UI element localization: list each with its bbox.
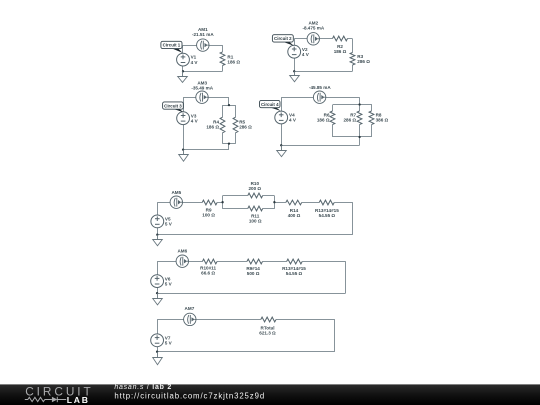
wire R5 top lead — [235, 105, 237, 117]
junction — [156, 292, 158, 294]
annotation tag Circuit 3 — [163, 102, 184, 112]
wire R11 right lead — [263, 208, 275, 210]
voltage source V1 — [177, 53, 190, 66]
svg-text:186 Ω: 186 Ω — [206, 125, 219, 130]
resistor R10 — [248, 193, 263, 198]
svg-text:Circuit 3: Circuit 3 — [164, 103, 182, 108]
svg-text:100 Ω: 100 Ω — [249, 219, 262, 224]
wire — [157, 319, 159, 334]
junction parallel top — [228, 104, 230, 106]
wire R8 top lead — [371, 105, 373, 112]
wire R10 left lead — [223, 195, 248, 197]
wire — [228, 97, 230, 105]
wire — [294, 71, 352, 73]
junction parallel bottom — [228, 142, 230, 144]
resistor R13#14#15 — [319, 200, 334, 205]
wire — [276, 319, 335, 321]
wire — [302, 202, 320, 204]
svg-text:-45.85 mA: -45.85 mA — [309, 85, 331, 90]
svg-text:386 Ω: 386 Ω — [376, 117, 389, 122]
svg-text:LAB: LAB — [67, 395, 90, 405]
wire — [274, 202, 285, 204]
ammeter AM6 — [176, 255, 188, 267]
wire — [359, 97, 361, 104]
svg-text:-21.51 mA: -21.51 mA — [192, 32, 214, 37]
wire — [320, 38, 333, 40]
wire R5 bottom lead — [235, 133, 237, 144]
svg-text:286 Ω: 286 Ω — [343, 117, 356, 122]
wire — [183, 202, 203, 204]
resistor R14 — [286, 200, 302, 205]
wire — [157, 293, 346, 295]
svg-text:5 V: 5 V — [165, 222, 173, 227]
wire — [208, 97, 229, 99]
ammeter AM4 — [313, 91, 325, 103]
ground — [153, 293, 163, 305]
resistor R9#14 — [247, 259, 263, 264]
svg-text:4 V: 4 V — [191, 119, 199, 124]
wire — [281, 124, 283, 145]
svg-text:54.55 Ω: 54.55 Ω — [319, 213, 336, 218]
resistor R5 — [233, 117, 238, 133]
ground — [179, 150, 189, 162]
svg-text:AM6: AM6 — [177, 249, 187, 254]
wire parallel bottom bar — [333, 136, 372, 138]
wire R3 bottom lead — [352, 65, 354, 71]
junction parallel right — [273, 201, 275, 203]
annotation tag Circuit 2 — [272, 35, 293, 46]
wire — [334, 202, 353, 204]
svg-text:54.55 Ω: 54.55 Ω — [286, 271, 303, 276]
wire — [359, 137, 361, 145]
svg-text:5 V: 5 V — [165, 341, 173, 346]
wire R7 bottom lead — [359, 125, 361, 137]
wire — [345, 261, 347, 293]
resistor R2 — [333, 36, 348, 41]
ground — [178, 71, 188, 82]
wire — [183, 97, 196, 99]
wire — [352, 202, 354, 235]
svg-text:-8.475 mA: -8.475 mA — [302, 25, 324, 30]
annotation tag Circuit 4 — [260, 100, 281, 111]
wire — [302, 261, 345, 263]
svg-text:Circuit 1: Circuit 1 — [163, 43, 181, 48]
annotation tag Circuit 1 — [161, 41, 183, 53]
wire — [281, 97, 283, 111]
svg-text:186 Ω: 186 Ω — [317, 117, 330, 122]
ground — [277, 145, 287, 156]
wire — [196, 319, 261, 321]
voltage source V6 — [151, 275, 164, 288]
svg-text:500 Ω: 500 Ω — [247, 271, 260, 276]
resistor R10#11 — [202, 259, 217, 264]
wire R1 top lead — [222, 45, 224, 52]
wire — [157, 351, 335, 353]
wire — [157, 347, 159, 352]
wire — [183, 97, 185, 112]
wire — [348, 38, 353, 40]
resistor R4 — [220, 117, 225, 133]
wire — [326, 97, 360, 99]
wire — [182, 45, 184, 53]
resistor R9 — [202, 200, 217, 205]
svg-text:400 Ω: 400 Ω — [288, 213, 301, 218]
svg-text:200 Ω: 200 Ω — [248, 186, 261, 191]
ammeter AM3 — [196, 91, 208, 103]
wire R1 bottom lead — [222, 66, 224, 72]
wire parallel bottom bar — [222, 143, 235, 145]
wire R10 right lead — [263, 195, 275, 197]
svg-text:286 Ω: 286 Ω — [357, 59, 370, 64]
svg-text:hasan.s / lab 2: hasan.s / lab 2 — [114, 384, 172, 391]
wire R3 top lead — [352, 39, 354, 53]
junction — [182, 70, 184, 72]
wire — [183, 45, 197, 47]
ammeter AM5 — [170, 196, 182, 208]
ammeter AM7 — [184, 313, 196, 325]
resistor R7 — [357, 111, 362, 125]
wire — [281, 145, 359, 147]
svg-text:621.3 Ω: 621.3 Ω — [259, 331, 276, 336]
resistor R13#14#15 — [287, 259, 303, 264]
footer bar — [0, 384, 540, 405]
wire — [228, 144, 230, 150]
resistor R1 — [220, 52, 225, 66]
CircuitLab logo resistor-diode line — [25, 397, 66, 402]
resistor R6 — [330, 111, 335, 125]
svg-text:AM7: AM7 — [185, 306, 195, 311]
voltage source V3 — [177, 112, 190, 125]
junction — [293, 70, 295, 72]
ammeter AM2 — [307, 33, 319, 45]
junction parallel top — [358, 103, 360, 105]
svg-text:5 V: 5 V — [165, 281, 173, 286]
wire — [294, 38, 307, 40]
wire — [281, 97, 313, 99]
wire R7 top lead — [359, 105, 361, 112]
junction — [280, 144, 282, 146]
wire — [157, 261, 159, 275]
wire R4 top lead — [222, 105, 224, 117]
voltage source V7 — [151, 334, 164, 347]
wire — [209, 45, 223, 47]
wire R8 bottom lead — [371, 125, 373, 137]
wire R11 left lead — [223, 208, 248, 210]
wire — [334, 319, 336, 351]
wire — [157, 261, 176, 263]
svg-text:100 Ω: 100 Ω — [202, 212, 215, 217]
svg-text:66.6 Ω: 66.6 Ω — [201, 270, 215, 275]
wire — [157, 228, 159, 235]
wire — [183, 71, 223, 73]
wire parallel right bar — [274, 196, 276, 209]
svg-text:4 V: 4 V — [302, 52, 310, 57]
wire R6 top lead — [332, 105, 334, 112]
wire parallel top bar — [222, 105, 235, 107]
wire — [263, 261, 287, 263]
svg-text:186 Ω: 186 Ω — [227, 60, 240, 65]
junction — [156, 234, 158, 236]
wire — [217, 261, 247, 263]
resistor R3 — [350, 53, 355, 66]
svg-text:186 Ω: 186 Ω — [334, 49, 347, 54]
junction parallel bottom — [358, 136, 360, 138]
resistor RTotal — [261, 317, 276, 322]
wire — [294, 39, 296, 46]
svg-text:286 Ω: 286 Ω — [239, 125, 252, 130]
svg-text:AM5: AM5 — [171, 190, 181, 195]
wire — [217, 202, 223, 204]
wire parallel top bar — [333, 104, 372, 106]
wire parallel left bar — [222, 196, 224, 209]
voltage source V4 — [275, 111, 288, 124]
ground — [290, 71, 300, 82]
wire — [157, 202, 159, 215]
svg-text:Circuit 4: Circuit 4 — [261, 102, 279, 107]
wire — [183, 125, 185, 150]
wire R6 bottom lead — [332, 125, 334, 137]
svg-text:-35.49 mA: -35.49 mA — [191, 85, 213, 90]
junction — [182, 148, 184, 150]
svg-text:http://circuitlab.com/c7zkjtn3: http://circuitlab.com/c7zkjtn325z9d — [114, 392, 265, 401]
wire — [157, 202, 170, 204]
resistor R8 — [369, 111, 374, 125]
wire — [183, 149, 229, 151]
ammeter AM1 — [197, 39, 209, 51]
voltage source V5 — [151, 215, 164, 228]
svg-text:Circuit 2: Circuit 2 — [274, 36, 292, 41]
svg-text:4 V: 4 V — [191, 60, 199, 65]
wire — [294, 58, 296, 71]
ground — [153, 235, 163, 246]
wire — [157, 319, 184, 321]
wire — [182, 66, 184, 71]
wire — [189, 261, 203, 263]
wire — [157, 234, 352, 236]
voltage source V2 — [288, 45, 301, 58]
wire — [157, 288, 159, 294]
resistor R11 — [248, 206, 263, 211]
junction — [156, 351, 158, 353]
ground — [153, 352, 163, 365]
svg-text:4 V: 4 V — [289, 118, 297, 123]
junction parallel left — [221, 201, 223, 203]
wire R4 bottom lead — [222, 133, 224, 144]
